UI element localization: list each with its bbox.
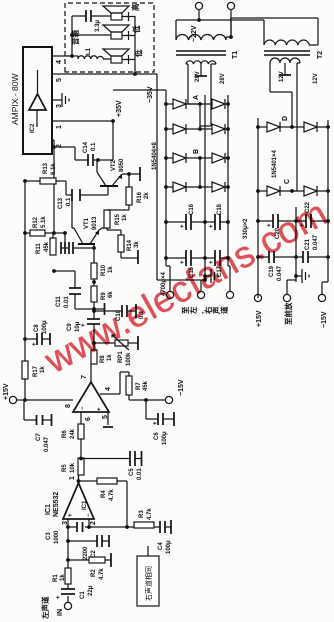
svg-text:3: 3: [62, 521, 69, 525]
wire pin4 into box: [70, 55, 78, 57]
svg-text:7: 7: [81, 375, 88, 379]
potentiometer RP1 100k: [94, 342, 115, 344]
svg-text:+: +: [56, 595, 62, 599]
svg-text:5: 5: [56, 78, 63, 82]
svg-text:T1: T1: [232, 51, 239, 59]
capacitor C10 0.1: [94, 310, 122, 312]
transformer T1 primary: [176, 34, 226, 40]
svg-text:NE5532: NE5532: [53, 492, 60, 517]
svg-text:45k: 45k: [44, 241, 50, 252]
svg-text:T2: T2: [317, 51, 324, 59]
transformer T1 core: [176, 51, 226, 55]
capacitor 3.3u: [86, 10, 91, 22]
svg-text:9013: 9013: [92, 216, 98, 230]
svg-text:C1: C1: [80, 591, 86, 599]
wire VT2 emitter to R16: [122, 174, 129, 187]
op-amp U IC2 AMPIX-80W module: [23, 47, 52, 154]
capacitor C13 0.1: [56, 181, 72, 195]
resistor R6 24k: [78, 424, 84, 439]
capacitor C11 0.01: [75, 294, 94, 309]
op-amp IC1 NE5532 first half: [63, 483, 94, 519]
wire R9 to R10: [93, 279, 95, 286]
wire IN to C1: [67, 596, 69, 603]
ground junction mid: [92, 307, 96, 311]
svg-text:A: A: [193, 95, 200, 100]
svg-text:28V: 28V: [220, 73, 226, 84]
ground pin3: [62, 93, 69, 107]
svg-text:IC1: IC1: [45, 504, 52, 515]
pin 1: [52, 120, 113, 122]
terminal +15V out: [254, 294, 261, 301]
svg-text:左声道: 左声道: [40, 596, 50, 620]
resistor R9 6k: [91, 286, 97, 302]
svg-text:6.1k: 6.1k: [51, 163, 57, 175]
diode bridge column 4: [164, 185, 168, 189]
capacitor C3 1000 between inputs: [68, 526, 89, 528]
resistor R15 1k: [104, 210, 110, 228]
transistor VT1 9013: [78, 243, 95, 245]
svg-text:24k: 24k: [70, 428, 76, 439]
svg-text:−: −: [86, 513, 92, 517]
terminal AC ~22V b: [227, 2, 234, 9]
capacitor C14 0.1: [54, 147, 88, 160]
svg-text:C18: C18: [217, 203, 223, 215]
svg-text:100μ: 100μ: [162, 431, 168, 445]
wire R8 to C9: [93, 324, 95, 350]
svg-text:45k: 45k: [143, 380, 149, 391]
resistor R7 45k: [126, 376, 132, 395]
svg-text:低: 低: [131, 25, 141, 34]
svg-text:R3: R3: [139, 510, 145, 518]
svg-text:4.7k: 4.7k: [147, 508, 153, 520]
svg-text:R12: R12: [33, 216, 39, 228]
wire pin5 return rail: [129, 16, 136, 74]
svg-text:C7: C7: [36, 433, 42, 441]
svg-text:R15: R15: [115, 213, 121, 225]
wire feedback to IC2 pin2: [53, 140, 55, 233]
svg-text:1: 1: [69, 476, 76, 480]
speaker return bars: [122, 12, 129, 64]
wire stub from box: [147, 546, 149, 556]
transformer T2 secondary 12V 12V: [270, 58, 300, 63]
wire opamp out to R5: [78, 475, 80, 483]
svg-text:100μ: 100μ: [166, 540, 172, 554]
svg-text:22μ: 22μ: [88, 585, 94, 596]
svg-text:R1: R1: [53, 574, 59, 582]
svg-text:−15V: −15V: [321, 311, 328, 328]
svg-text:+: +: [97, 407, 103, 411]
wire rail to R12: [24, 181, 26, 361]
svg-text:6: 6: [85, 417, 92, 421]
svg-text:RP1: RP1: [118, 351, 124, 363]
svg-text:R14: R14: [127, 239, 133, 251]
speaker mid 低: [111, 32, 122, 39]
speaker woofer 低: [111, 56, 122, 63]
wire T2 sec to diodes: [270, 63, 292, 127]
pin 4: [52, 55, 70, 57]
svg-text:10k: 10k: [70, 462, 76, 473]
svg-text:R5: R5: [62, 464, 68, 472]
svg-text:C5: C5: [129, 468, 135, 476]
ground mid: [205, 275, 211, 277]
terminal -15V out: [318, 294, 325, 301]
wire junction to R9: [93, 302, 95, 309]
box right channel same 右声道相同: [137, 556, 159, 606]
terminal -15V: [165, 396, 172, 403]
capacitor C18 4700u: [205, 221, 215, 223]
diode bridge column A: [164, 102, 168, 106]
svg-text:+: +: [209, 224, 215, 228]
svg-text:R16: R16: [137, 191, 143, 203]
svg-text:2: 2: [56, 144, 63, 148]
wire AC feed: [176, 9, 264, 40]
capacitor C17 4700u: [205, 257, 215, 259]
ground C5: [141, 451, 143, 466]
svg-text:2200: 2200: [83, 546, 89, 560]
svg-text:C8: C8: [34, 324, 40, 332]
svg-text:4.7k: 4.7k: [99, 568, 105, 580]
resistor R11 45k: [50, 238, 56, 255]
diode bridge column 2: [164, 127, 168, 131]
diode column C: [256, 189, 260, 193]
svg-text:R13: R13: [43, 162, 49, 174]
svg-text:至前放: 至前放: [283, 302, 293, 325]
wire R10 to VT1 base: [88, 244, 94, 263]
svg-text:+15V: +15V: [3, 383, 10, 400]
svg-text:+: +: [68, 513, 74, 517]
pin 6: [80, 412, 82, 424]
capacitor C6 100u: [158, 413, 163, 425]
wire R5 to R6: [80, 439, 82, 458]
resistor R5 10k: [78, 458, 84, 475]
svg-text:0.01: 0.01: [137, 468, 143, 480]
capacitor C9 10u: [87, 319, 100, 324]
svg-text:−: −: [80, 406, 86, 410]
capacitor C22 330u: [296, 220, 306, 222]
svg-text:5.1k: 5.1k: [41, 216, 47, 228]
resistor R13 6.1k: [25, 180, 40, 182]
wire bridge bottom rail: [227, 95, 229, 266]
capacitor C21 0.047: [296, 256, 303, 258]
svg-text:IN: IN: [57, 609, 64, 616]
wire VT2 collector: [96, 160, 98, 172]
svg-text:IC2: IC2: [30, 123, 36, 133]
svg-text:R2: R2: [91, 569, 97, 577]
svg-text:C2: C2: [91, 550, 97, 558]
wire bridge mid pairs: [199, 104, 201, 187]
speaker tweeter 高: [111, 13, 122, 20]
wire +15V rail: [16, 379, 73, 400]
svg-text:L1: L1: [86, 47, 92, 55]
svg-text:3k: 3k: [134, 241, 140, 248]
resistor R4 4.7k feedback: [79, 480, 98, 482]
resistor R12 5.1k: [30, 230, 45, 236]
svg-text:D: D: [282, 116, 289, 121]
svg-text:1k: 1k: [60, 574, 66, 581]
svg-text:C6: C6: [154, 432, 160, 440]
resistor R16 2k: [126, 187, 132, 205]
capacitor C8 100u: [25, 338, 37, 340]
svg-text:C: C: [284, 179, 291, 184]
svg-text:C14: C14: [83, 141, 89, 153]
svg-text:~22V: ~22V: [191, 25, 198, 42]
svg-text:R7: R7: [136, 382, 142, 390]
svg-text:0.01: 0.01: [64, 296, 70, 308]
capacitor C12 0.1 x2: [61, 233, 65, 248]
svg-text:C19: C19: [269, 265, 275, 277]
resistor R2 4.7k: [89, 557, 105, 563]
svg-text:C11: C11: [56, 296, 62, 307]
svg-text:R4: R4: [101, 490, 107, 498]
wire crossover feed: [72, 16, 111, 56]
svg-text:4: 4: [56, 60, 63, 64]
svg-text:右声道相同: 右声道相同: [144, 566, 153, 601]
svg-text:R11: R11: [36, 243, 42, 254]
capacitor C5 0.01: [130, 451, 135, 466]
svg-text:+: +: [180, 224, 186, 228]
wire bridge top rail: [165, 90, 167, 266]
svg-text:12V: 12V: [313, 73, 319, 84]
svg-text:4.7k: 4.7k: [109, 489, 115, 501]
wire R1 to opamp: [67, 519, 69, 568]
svg-text:1N5401×4: 1N5401×4: [272, 149, 278, 178]
T1 center tap chassis: [200, 64, 202, 76]
node IN input terminal: [64, 602, 71, 609]
capacitor C1 22u: [61, 589, 75, 594]
transformer T1 secondary 28V 28V: [186, 61, 216, 64]
svg-text:R17: R17: [33, 365, 39, 377]
svg-text:2k: 2k: [144, 192, 150, 199]
svg-text:3.3μ: 3.3μ: [95, 20, 101, 32]
svg-text:C4: C4: [158, 542, 164, 550]
resistor R8 1k: [91, 350, 97, 364]
wire C6 branch: [146, 400, 158, 419]
svg-text:8: 8: [65, 404, 72, 408]
resistor R1 1k: [65, 568, 71, 584]
svg-text:C16: C16: [189, 203, 195, 215]
svg-text:0.1: 0.1: [91, 142, 97, 151]
ground R2: [105, 559, 111, 561]
wire C5 branch: [81, 458, 130, 460]
ground RP1: [128, 342, 138, 344]
svg-text:−35V: −35V: [147, 86, 154, 103]
svg-text:R9: R9: [101, 292, 107, 300]
capacitor C20 330u: [258, 220, 273, 222]
svg-text:AMPIX - 80W: AMPIX - 80W: [10, 74, 20, 125]
svg-text:−15V: −15V: [178, 379, 185, 396]
svg-text:IC1: IC1: [82, 500, 88, 510]
svg-text:R6: R6: [62, 430, 68, 438]
ground C6: [173, 412, 175, 426]
wire +35V to bridge: [113, 89, 166, 91]
terminal +15V: [9, 396, 16, 403]
ground R14: [121, 252, 138, 258]
svg-text:0.047: 0.047: [277, 265, 283, 281]
resistor R14 3k: [118, 235, 124, 252]
svg-text:VT1: VT1: [84, 217, 90, 229]
diode column D: [256, 125, 260, 129]
svg-text:100μ: 100μ: [42, 320, 48, 334]
inductor L1: [77, 56, 79, 59]
speaker box dashed 音箱: [65, 3, 154, 72]
T2 center tap chassis: [284, 63, 286, 75]
svg-text:2: 2: [90, 521, 97, 525]
svg-text:8050: 8050: [119, 158, 125, 172]
node junction input: [66, 558, 70, 562]
capacitor C7 0.047: [24, 400, 36, 420]
svg-text:4: 4: [105, 387, 112, 391]
svg-text:道: 道: [219, 306, 229, 314]
resistor R3 4.7k: [134, 522, 154, 528]
svg-text:R10: R10: [101, 264, 107, 276]
wire diode bottom rail: [327, 120, 329, 282]
pin 2: [52, 139, 54, 141]
capacitor C19 0.047: [258, 256, 269, 258]
ground C7: [51, 414, 53, 426]
terminal AC ~22V a: [195, 2, 202, 9]
wire diode top rail: [257, 118, 259, 298]
capacitor C16 4700u: [166, 221, 186, 223]
terminal 0V out: [197, 291, 204, 298]
svg-text:12V: 12V: [279, 71, 285, 82]
ground C4: [170, 520, 172, 534]
transformer T2 primary: [264, 40, 309, 45]
wire feedback from R4: [126, 481, 128, 527]
svg-text:+: +: [153, 421, 159, 425]
svg-text:1k: 1k: [122, 214, 128, 221]
wire pin2 feedback node: [89, 519, 134, 527]
resistor R10 1k: [91, 263, 97, 279]
wire C2 branch: [68, 540, 97, 542]
svg-text:0.1: 0.1: [66, 197, 72, 206]
svg-text:100k: 100k: [126, 352, 132, 366]
wire down to R2: [68, 559, 89, 561]
wire -35V line: [157, 74, 205, 280]
capacitor C15 4700u: [166, 257, 186, 259]
diode bridge column B: [164, 156, 168, 160]
wire VT1 emitter down: [99, 228, 107, 230]
wire mid rail pm15: [295, 207, 297, 282]
svg-text:B: B: [193, 149, 200, 154]
op-amp IC1 second half: [73, 382, 109, 412]
svg-text:1: 1: [56, 125, 63, 129]
resistor R17 1k: [22, 361, 28, 379]
wire ground mid rail: [204, 95, 206, 280]
terminal +35V out: [166, 291, 173, 298]
ground R16: [129, 173, 140, 175]
svg-text:高: 高: [130, 3, 140, 11]
svg-text:+35V: +35V: [116, 100, 123, 117]
svg-text:VT2: VT2: [111, 159, 117, 171]
svg-text:1k: 1k: [107, 354, 113, 361]
svg-text:1k: 1k: [108, 266, 114, 273]
wire T1 sec to bridge: [186, 64, 200, 104]
svg-text:C13: C13: [58, 197, 64, 209]
pin 3: [52, 99, 62, 101]
pin 5: [52, 73, 157, 75]
transistor VT2 8050: [100, 185, 118, 187]
wire VT1 collector up: [72, 199, 74, 228]
wire +35V to IC2 pin1: [98, 121, 113, 160]
capacitor C4 100u: [154, 526, 160, 528]
svg-text:1000: 1000: [54, 530, 60, 544]
svg-text:0.047: 0.047: [44, 436, 50, 452]
svg-text:+15V: +15V: [256, 310, 263, 327]
svg-text:6k: 6k: [108, 291, 114, 298]
wire R15 to R16: [107, 205, 129, 210]
node -15V junction: [144, 398, 148, 402]
transformer T2 core: [264, 51, 310, 55]
ground mid pm15: [294, 274, 298, 278]
terminal 至前放 out: [283, 294, 290, 301]
capacitor C2 2200: [97, 535, 102, 547]
svg-text:1k: 1k: [40, 366, 46, 373]
svg-text:C3: C3: [46, 532, 52, 540]
terminal -35V out: [226, 291, 233, 298]
